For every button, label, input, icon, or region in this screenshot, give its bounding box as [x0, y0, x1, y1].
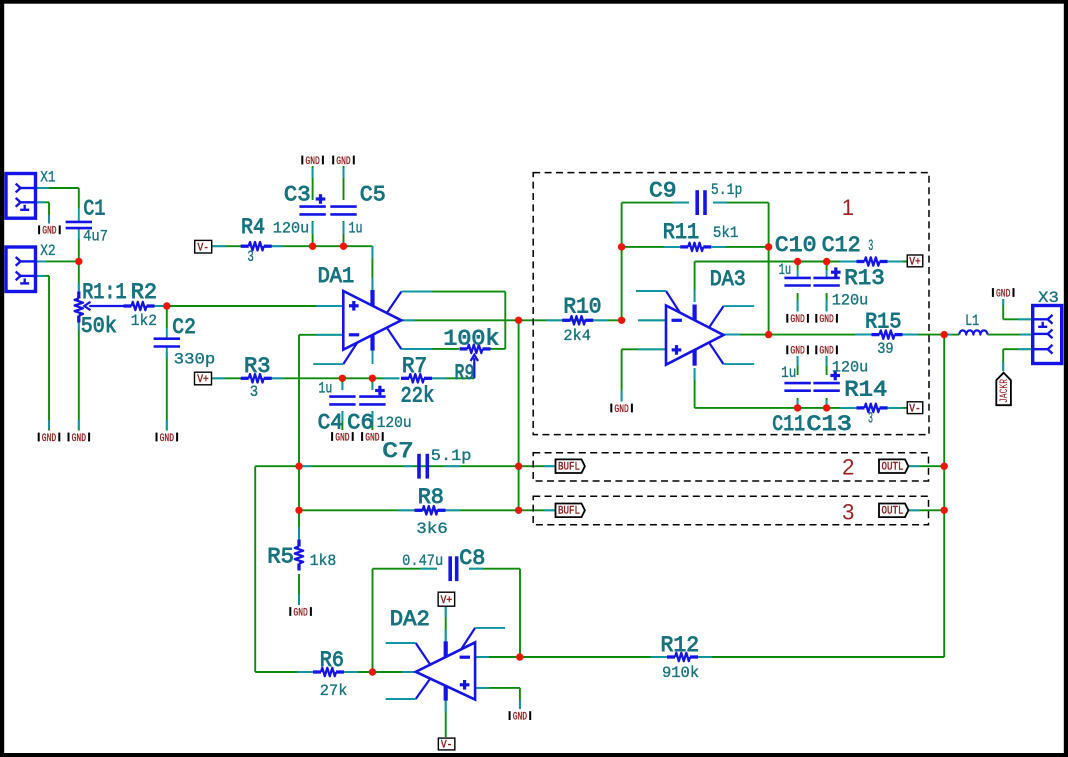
- svg-text:R12: R12: [661, 633, 700, 658]
- svg-text:DA2: DA2: [390, 607, 430, 632]
- svg-text:V+: V+: [197, 374, 209, 386]
- svg-text:120u: 120u: [832, 292, 869, 310]
- svg-text:JACKR: JACKR: [999, 379, 1011, 403]
- svg-text:OUTL: OUTL: [882, 462, 904, 474]
- svg-text:V+: V+: [441, 595, 453, 607]
- svg-text:R10: R10: [563, 294, 601, 319]
- svg-text:C5: C5: [360, 182, 386, 207]
- svg-text:3: 3: [868, 237, 873, 255]
- svg-text:2: 2: [842, 455, 854, 480]
- svg-text:V-: V-: [909, 403, 921, 415]
- svg-text:C11: C11: [772, 412, 805, 437]
- svg-text:R6: R6: [320, 648, 344, 673]
- svg-text:R8: R8: [418, 485, 444, 510]
- svg-text:V-: V-: [441, 740, 453, 752]
- svg-text:1u: 1u: [779, 261, 792, 279]
- svg-text:1: 1: [842, 195, 854, 220]
- svg-text:L1: L1: [965, 312, 979, 330]
- svg-text:GND: GND: [614, 404, 629, 416]
- svg-text:GND: GND: [790, 314, 805, 326]
- svg-text:X3: X3: [1038, 289, 1059, 307]
- svg-text:X2: X2: [40, 242, 55, 260]
- svg-text:GND: GND: [72, 433, 87, 445]
- svg-text:R3: R3: [244, 354, 271, 379]
- svg-text:C13: C13: [806, 412, 852, 437]
- svg-text:GND: GND: [819, 314, 834, 326]
- svg-text:5k1: 5k1: [713, 224, 739, 242]
- svg-text:DA3: DA3: [710, 267, 746, 292]
- svg-text:GND: GND: [293, 607, 308, 619]
- svg-text:GND: GND: [819, 346, 834, 358]
- svg-text:R1:1: R1:1: [82, 280, 126, 305]
- svg-text:GND: GND: [513, 711, 528, 723]
- svg-text:0.47u: 0.47u: [402, 552, 443, 570]
- svg-text:C2: C2: [172, 315, 196, 340]
- svg-text:2k4: 2k4: [563, 327, 591, 345]
- svg-text:GND: GND: [336, 156, 351, 168]
- svg-text:R14: R14: [844, 378, 887, 403]
- svg-text:1u: 1u: [318, 379, 332, 397]
- svg-text:R7: R7: [402, 354, 427, 379]
- svg-text:1k2: 1k2: [131, 312, 157, 330]
- svg-text:3: 3: [250, 383, 258, 401]
- svg-text:GND: GND: [996, 288, 1011, 300]
- svg-text:R4: R4: [241, 215, 265, 240]
- svg-text:R5: R5: [267, 545, 294, 570]
- svg-text:3: 3: [842, 500, 854, 525]
- svg-text:1u: 1u: [349, 220, 363, 238]
- svg-text:1k8: 1k8: [310, 552, 337, 570]
- svg-text:R9: R9: [455, 361, 475, 386]
- svg-text:C9: C9: [649, 179, 677, 204]
- svg-text:OUTL: OUTL: [882, 506, 904, 518]
- svg-text:C4: C4: [318, 410, 343, 435]
- svg-text:39: 39: [877, 340, 893, 358]
- svg-text:120u: 120u: [273, 220, 310, 238]
- svg-text:27k: 27k: [320, 682, 348, 700]
- svg-text:C3: C3: [284, 182, 311, 207]
- svg-text:4u7: 4u7: [83, 228, 108, 246]
- svg-text:3: 3: [247, 248, 254, 266]
- svg-text:1u: 1u: [781, 364, 796, 382]
- svg-text:120u: 120u: [832, 359, 869, 377]
- svg-text:C1: C1: [83, 197, 105, 222]
- svg-text:DA1: DA1: [318, 264, 355, 289]
- svg-text:5.1p: 5.1p: [431, 447, 472, 465]
- svg-text:GND: GND: [790, 346, 805, 358]
- svg-text:R13: R13: [844, 266, 885, 291]
- svg-text:R15: R15: [865, 309, 902, 334]
- svg-text:5.1p: 5.1p: [711, 181, 743, 199]
- svg-text:GND: GND: [42, 226, 57, 238]
- svg-text:GND: GND: [305, 156, 320, 168]
- svg-text:V+: V+: [909, 257, 921, 269]
- svg-text:22k: 22k: [401, 384, 435, 409]
- svg-text:R11: R11: [663, 220, 699, 245]
- svg-text:910k: 910k: [662, 664, 699, 682]
- svg-text:C8: C8: [459, 546, 485, 571]
- svg-text:GND: GND: [42, 433, 57, 445]
- svg-text:100k: 100k: [443, 327, 499, 352]
- svg-text:R2: R2: [131, 280, 157, 305]
- svg-text:BUFL: BUFL: [558, 462, 580, 474]
- svg-text:120u: 120u: [377, 414, 412, 432]
- svg-text:X1: X1: [40, 169, 55, 187]
- svg-text:3: 3: [868, 409, 873, 427]
- svg-text:50k: 50k: [81, 314, 117, 339]
- svg-text:330p: 330p: [174, 350, 216, 368]
- svg-text:V-: V-: [197, 242, 209, 254]
- svg-text:3k6: 3k6: [416, 520, 448, 538]
- svg-text:C7: C7: [382, 439, 413, 464]
- svg-text:C10: C10: [775, 233, 817, 258]
- svg-text:GND: GND: [160, 433, 175, 445]
- svg-text:BUFL: BUFL: [558, 506, 580, 518]
- svg-text:C12: C12: [822, 233, 861, 258]
- svg-text:C6: C6: [347, 410, 374, 435]
